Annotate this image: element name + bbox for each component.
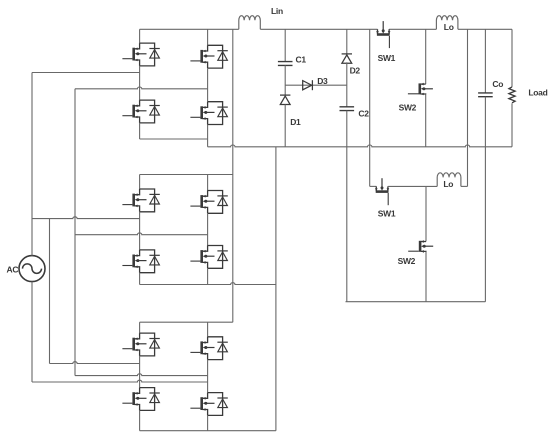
transistor SW2 (lower) <box>408 240 433 253</box>
wire SW2 upper source <box>425 94 427 146</box>
wire cell3 bottom rail <box>140 430 276 432</box>
inductor Lo (lower) <box>437 173 461 187</box>
transistor Q5 (cell2 upper-left) <box>122 189 159 212</box>
transistor Q8 (cell2 lower-right) <box>190 246 227 269</box>
wire load bottom lead <box>511 103 513 147</box>
wire converter2 bottom rail <box>346 301 486 303</box>
wire cell1 right leg midpoint <box>207 68 209 102</box>
svg-text:D2: D2 <box>350 66 361 76</box>
inductor Lo (upper) <box>436 16 458 30</box>
svg-text:SW1: SW1 <box>378 53 396 63</box>
wire cell3 left leg source <box>139 410 141 430</box>
transistor Q2 (cell1 lower-left) <box>122 100 159 123</box>
wire cell3 right leg midpoint <box>207 360 209 393</box>
wire cell2 right leg midpoint <box>207 213 209 245</box>
wire cell1 left leg drain <box>139 29 141 43</box>
wire bus x467.5 (output to converter2) <box>467 29 469 186</box>
transistor Q10 (cell3 lower-left) <box>122 388 159 411</box>
wire top rail right segment (Lo to load corner) <box>458 28 512 30</box>
transistor SW2 (upper) <box>408 83 433 96</box>
svg-text:D1: D1 <box>290 117 301 127</box>
wire AC bottom lead <box>31 282 33 382</box>
wire cell2 left leg midpoint <box>139 212 141 250</box>
svg-text:Load: Load <box>528 88 547 98</box>
inductor Lin <box>239 16 261 30</box>
wire cell3 top rail <box>140 321 233 323</box>
wire C1-D1 lead <box>284 65 286 95</box>
svg-text:SW2: SW2 <box>399 103 417 113</box>
wire cell1 left leg source <box>139 123 141 139</box>
wire cell2 right leg source <box>207 268 209 284</box>
wire top rail left segment (cell1 top to Lin) <box>140 28 239 30</box>
wire cell1 left leg midpoint <box>139 66 141 100</box>
wire AC top lead <box>31 73 33 256</box>
wire D1 bottom lead <box>284 105 286 147</box>
svg-text:SW1: SW1 <box>378 209 396 219</box>
wire cell3 left leg midpoint <box>139 356 141 388</box>
wire bus x369.7 (top rail to converter2) <box>369 29 371 186</box>
wire C1 top lead <box>284 29 286 61</box>
wire cell3 right midpoint upper <box>75 374 208 376</box>
wire D2-C2 lead <box>346 62 348 107</box>
wire bus x275.9 (bottom rails link) <box>275 147 277 431</box>
svg-text:D3: D3 <box>317 76 328 86</box>
wire load top lead <box>511 29 513 87</box>
wire bus x232.8 (top rails link) <box>232 29 234 322</box>
svg-text:Lo: Lo <box>444 22 454 32</box>
wire vertical x49.5 (left midpoints bus) <box>49 219 51 364</box>
wire cell2 top rail <box>140 174 233 176</box>
wire node-a to cell2 left midpoint <box>32 217 140 219</box>
wire top rail mid segment (Lin to SW1) <box>260 28 377 30</box>
svg-text:Lo: Lo <box>443 179 453 189</box>
wire converter2 top rail right <box>461 185 468 187</box>
wire Co top lead <box>484 29 486 93</box>
wire cell3 right midpoint lower (AC return) <box>32 380 208 382</box>
wire D2 top lead <box>346 29 348 54</box>
wire C2 bottom lead (down to converter2 bottom) <box>346 111 348 302</box>
transistor Q4 (cell1 lower-right) <box>190 102 227 125</box>
wire cell3 left leg drain <box>139 322 141 333</box>
diode D1 <box>280 95 290 104</box>
wire cell3 left midpoint <box>50 362 140 364</box>
wire vertical x75 (right midpoints bus) <box>74 89 76 376</box>
transistor Q1 (cell1 upper-left) <box>122 43 159 66</box>
svg-text:Lin: Lin <box>271 6 283 16</box>
svg-text:Co: Co <box>492 79 503 89</box>
transistor Q11 (cell3 upper-right) <box>190 337 227 360</box>
wire cell2 right midpoint <box>75 233 208 235</box>
wire converter2 top rail left <box>370 185 377 187</box>
wire cell2 bottom rail <box>140 283 276 285</box>
wire converter2 top rail mid <box>388 185 437 187</box>
diode D2 <box>342 54 352 63</box>
svg-text:AC: AC <box>7 265 19 275</box>
capacitor C2 <box>340 107 355 111</box>
wire node-a (AC to cell1 left midpoint) <box>32 72 140 74</box>
wire cell2 left leg source <box>139 273 141 285</box>
svg-text:C1: C1 <box>296 55 307 65</box>
wire cell2 right leg drain <box>207 175 209 191</box>
capacitor C1 <box>278 62 293 66</box>
transistor SW1 (lower) <box>375 178 389 205</box>
resistor Load <box>509 87 515 103</box>
wire main bottom rail <box>208 145 512 147</box>
diode D3 <box>303 80 313 90</box>
transistor SW1 (upper) <box>376 21 390 48</box>
transistor Q7 (cell2 upper-right) <box>190 191 227 214</box>
svg-text:SW2: SW2 <box>398 256 416 266</box>
wire cell1 right leg drain <box>207 29 209 45</box>
transistor Q6 (cell2 lower-left) <box>122 250 159 273</box>
wire SW2 lower drain <box>425 186 427 241</box>
transistor Q3 (cell1 upper-right) <box>190 45 227 68</box>
wire SW2 upper drain <box>425 29 427 84</box>
wire top rail segment (SW1 to Lo) <box>389 28 436 30</box>
wire cell1 right leg source <box>207 125 209 140</box>
wire cell1 bottom rail <box>140 138 208 140</box>
wire cell1 bottom jog <box>207 139 209 147</box>
wire node-b (cell1 right midpoint) <box>75 87 208 89</box>
wire cell2 left leg drain <box>139 175 141 190</box>
transistor Q12 (cell3 lower-right) <box>190 393 227 416</box>
svg-text:C2: C2 <box>358 109 369 119</box>
AC source <box>19 256 45 282</box>
capacitor Co <box>478 93 493 97</box>
wire cell3 right leg drain <box>207 322 209 337</box>
transistor Q9 (cell3 upper-left) <box>122 333 159 356</box>
wire node D3 branch <box>285 84 347 86</box>
wire Co bottom lead <box>484 97 486 302</box>
wire SW2 lower source <box>425 252 427 302</box>
wire cell3 right leg source <box>207 415 209 430</box>
